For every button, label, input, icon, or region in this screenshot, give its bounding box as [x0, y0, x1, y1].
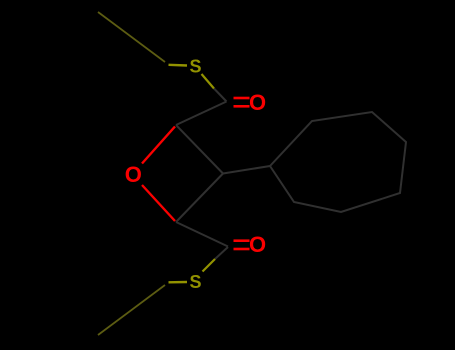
- C=O double bond bottom: [234, 239, 250, 242]
- top ethyl CH3-CH2 bond: [98, 12, 165, 62]
- C=O double bond top: [234, 97, 250, 100]
- bottom S-CH2 bond: [169, 281, 188, 284]
- svg-text:O: O: [249, 90, 266, 115]
- O-V2 ether bond (red): [142, 185, 175, 221]
- svg-text:S: S: [189, 272, 201, 292]
- cycloheptane ring: [270, 112, 406, 212]
- svg-text:O: O: [125, 162, 142, 187]
- V1-O ether bond (red): [142, 127, 175, 164]
- V1-Cmid bond: [176, 125, 223, 174]
- S-C(=O) bond top, C half: [214, 89, 227, 102]
- V2-Cmid bond: [176, 174, 223, 223]
- Cmid-ring bond: [223, 166, 270, 174]
- S-C(=O) bond top, S half: [202, 74, 215, 89]
- C1-V1 bond: [176, 102, 227, 126]
- S-C(=O) bond bottom, S half: [203, 259, 216, 272]
- S-C(=O) bond bottom, C half: [215, 247, 228, 259]
- svg-text:S: S: [189, 57, 201, 77]
- top S-CH2 bond: [169, 64, 188, 67]
- svg-text:O: O: [249, 232, 266, 257]
- V2-C2 bond: [176, 222, 228, 247]
- bottom ethyl CH3-CH2 bond: [98, 285, 165, 335]
